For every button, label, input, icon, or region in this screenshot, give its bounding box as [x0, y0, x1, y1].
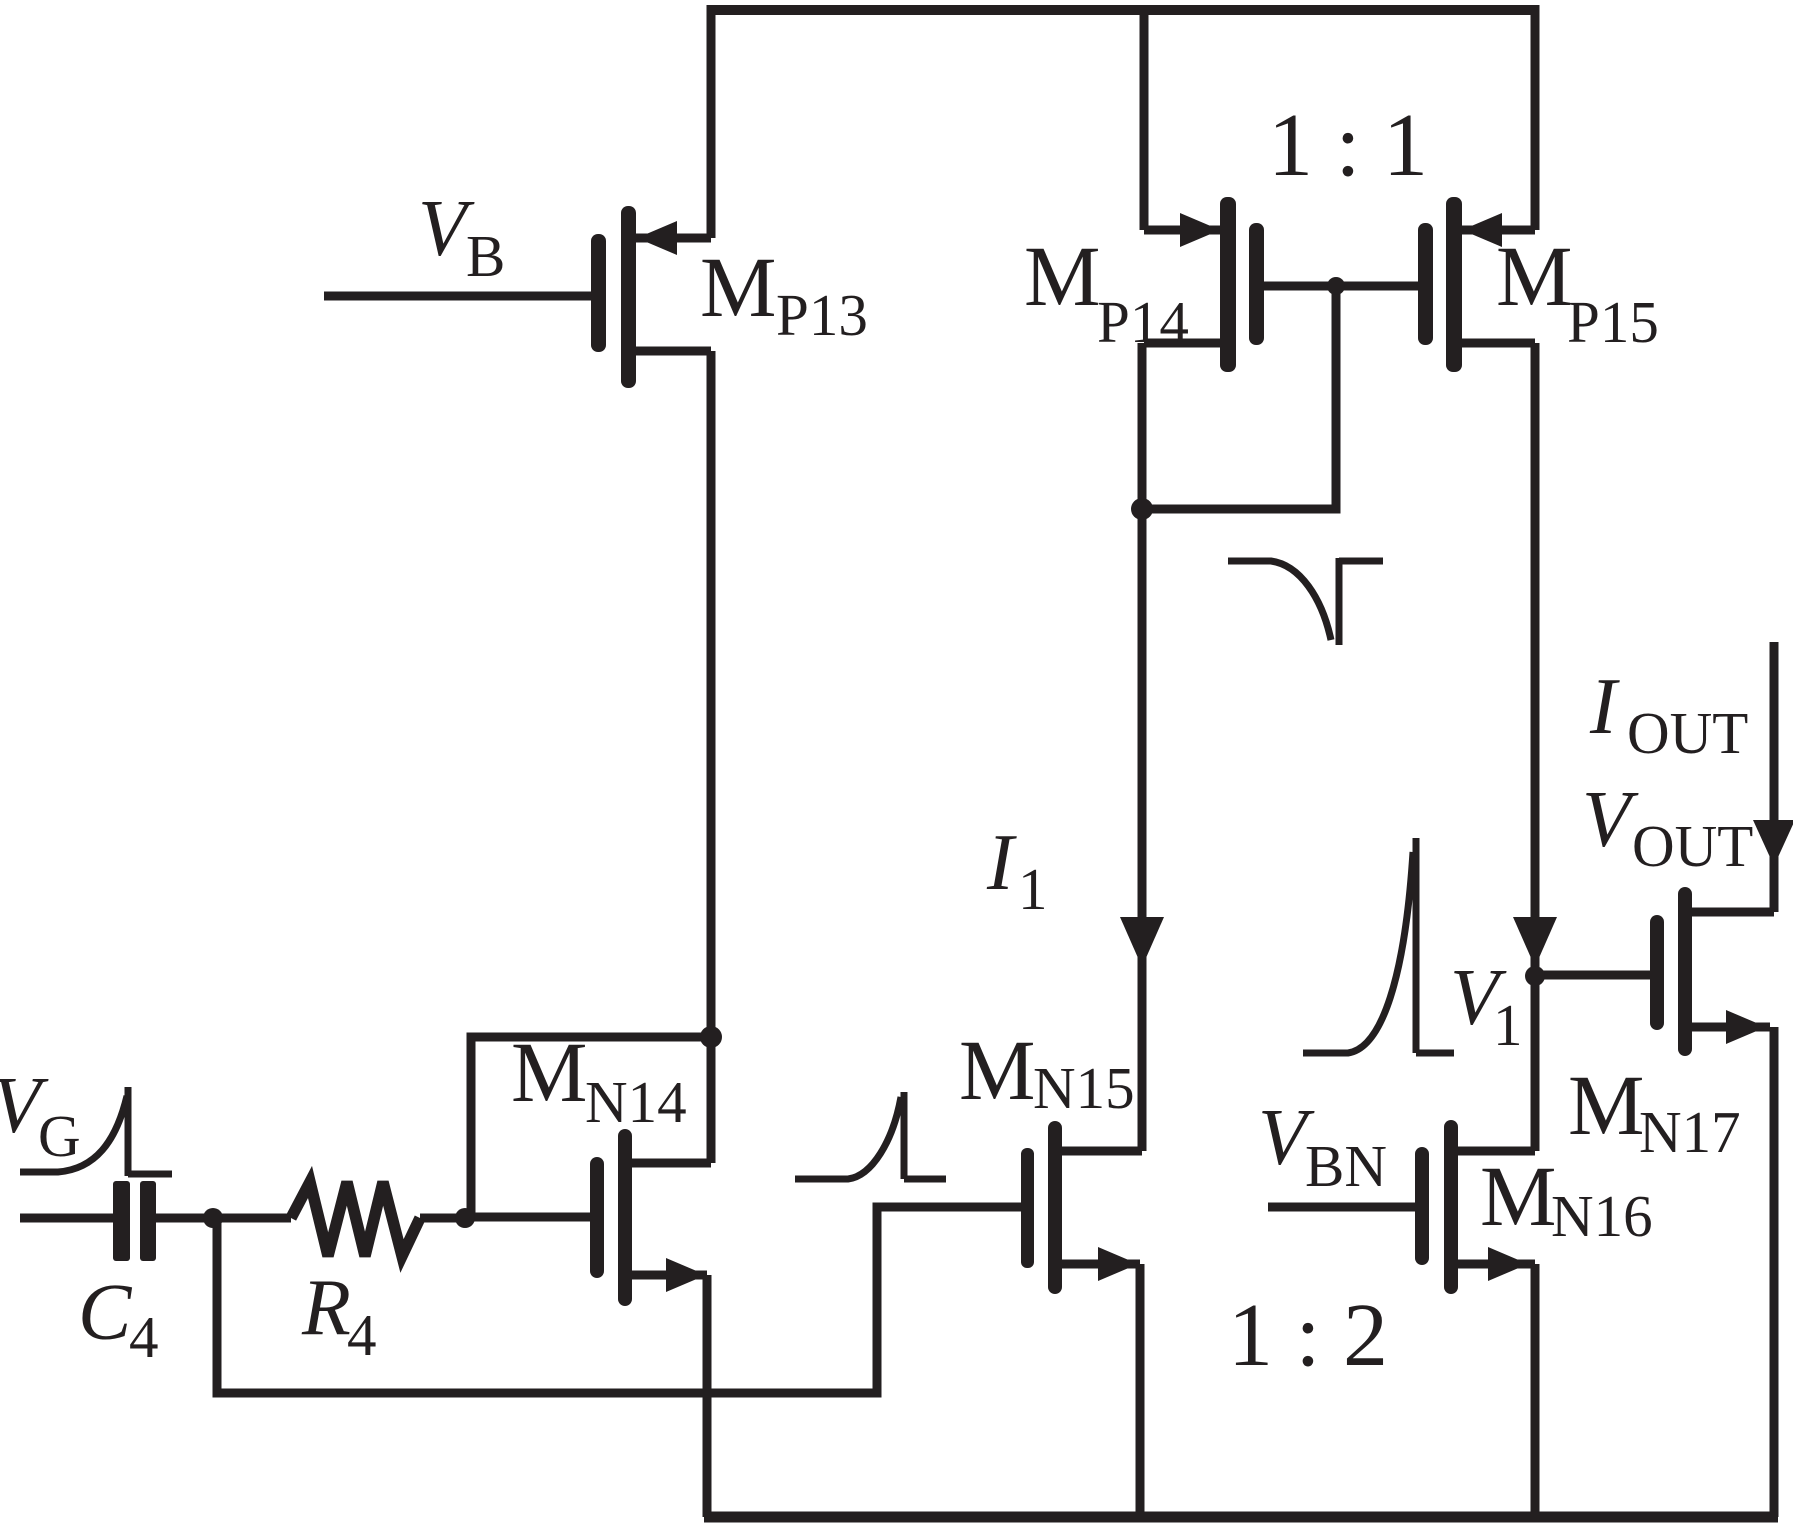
wire MN15 source lead and down to ground [1062, 1264, 1140, 1517]
svg-text:BN: BN [1305, 1133, 1387, 1199]
svg-text:1: 1 [1018, 856, 1048, 922]
transistor MP15 gate bar [1418, 223, 1433, 345]
current arrow I1 [1120, 917, 1164, 967]
wire VG input to C4 [20, 1214, 113, 1223]
svg-text:M: M [700, 239, 776, 335]
wire top supply rail [707, 5, 1539, 15]
transistor MN14 source arrow [666, 1258, 706, 1292]
wire MP13 gate lead from VB [324, 292, 591, 301]
svg-text:C: C [78, 1269, 133, 1357]
wire MP15 source to rail [1531, 5, 1540, 230]
svg-text:M: M [1480, 1148, 1556, 1244]
transistor MP15 source arrow [1462, 213, 1502, 247]
transistor MP13 source arrow [637, 221, 677, 255]
waveform icon at MN15 gate [795, 1097, 901, 1179]
wire R4 right lead [420, 1214, 465, 1223]
wire bottom ground rail [704, 1512, 1778, 1523]
wire MP14 source to rail [1140, 5, 1149, 230]
svg-text:M: M [959, 1022, 1035, 1118]
current arrow into node V1 [1513, 917, 1557, 967]
svg-text:M: M [1024, 228, 1100, 324]
transistor MN15 channel bar [1048, 1121, 1062, 1294]
transistor MN17 source arrow [1726, 1010, 1766, 1044]
svg-text:N17: N17 [1639, 1099, 1741, 1165]
wire MN15 drain lead [1062, 1147, 1142, 1156]
svg-text:P13: P13 [776, 282, 868, 348]
svg-text:P14: P14 [1097, 289, 1189, 355]
node dot MP14 MP15 gate [1327, 277, 1345, 295]
wire MN17 drain lead [1692, 908, 1774, 917]
resistor R4 [291, 1182, 420, 1256]
wire MN14 gate-drain loop [471, 1037, 711, 1217]
wire MP13 source lead [635, 234, 711, 243]
transistor MN15 gate bar [1021, 1148, 1034, 1268]
node dot V1 [1525, 966, 1545, 986]
transistor MP13 gate bar [591, 234, 606, 352]
svg-text:OUT: OUT [1627, 700, 1748, 766]
transistor MP13 channel bar [621, 206, 636, 388]
svg-text:OUT: OUT [1632, 813, 1753, 879]
transistor MP14 channel bar [1220, 197, 1236, 372]
wire MP13 drain down to MN14 drain [707, 351, 716, 1163]
node dot MP14 drain junction [1131, 498, 1153, 520]
wire output IOUT VOUT line [1770, 642, 1779, 912]
svg-text:4: 4 [347, 1302, 377, 1368]
transistor MP14 gate bar [1249, 223, 1264, 345]
transistor MN16 gate bar [1415, 1147, 1429, 1265]
svg-text:I: I [1589, 663, 1620, 751]
svg-text:M: M [1496, 228, 1572, 324]
transistor MN17 gate bar [1650, 915, 1664, 1030]
wire MN16 source lead and down to ground [1458, 1264, 1535, 1517]
svg-text:V: V [1582, 776, 1639, 864]
svg-text:1 : 1: 1 : 1 [1268, 96, 1428, 195]
transistor MN16 source arrow [1488, 1247, 1528, 1281]
transistor MN14 gate bar [590, 1157, 604, 1278]
svg-text:M: M [511, 1024, 587, 1120]
svg-text:P15: P15 [1567, 289, 1659, 355]
wire MN14 drain lead [632, 1159, 711, 1168]
wire MN14 gate lead [461, 1213, 590, 1222]
svg-text:4: 4 [129, 1304, 159, 1370]
current arrow IOUT into output [1753, 820, 1793, 866]
transistor MP15 channel bar [1446, 197, 1462, 372]
wire MP13 source to rail [707, 5, 716, 238]
svg-text:N16: N16 [1551, 1183, 1653, 1249]
svg-text:N14: N14 [585, 1069, 687, 1135]
svg-text:M: M [1568, 1057, 1644, 1153]
wire MP14 source lead [1144, 226, 1220, 235]
waveform icon at MP14 drain node [1228, 561, 1331, 640]
wire MN16 gate lead from VBN [1268, 1203, 1415, 1212]
wire MP13 drain lead [635, 347, 711, 356]
wire MP15 drain lead [1462, 339, 1535, 348]
svg-text:1: 1 [1493, 992, 1523, 1058]
svg-text:I: I [986, 819, 1017, 907]
wire node V1 to MN17 gate [1535, 971, 1650, 980]
wire MP14 drain lead [1144, 339, 1220, 348]
svg-text:G: G [38, 1103, 81, 1169]
node dot after C4 [203, 1208, 223, 1228]
transistor MN17 channel bar [1678, 887, 1692, 1056]
transistor MP14 source arrow [1180, 213, 1220, 247]
transistor MN14 channel bar [618, 1129, 632, 1306]
node dot R4 to MN14 gate [455, 1208, 475, 1228]
wire MP14 drain down to MN15 drain [1138, 343, 1147, 1151]
wire MP15 drain down to node V1 and MN16 drain [1531, 343, 1540, 1151]
capacitor C4 left plate [113, 1181, 130, 1261]
wire gate to drain diode connection [1142, 286, 1336, 509]
waveform icon at node V1 [1303, 852, 1413, 1053]
wire MN16 drain lead [1458, 1147, 1535, 1156]
wire MP14-MP15 gate connector [1264, 282, 1418, 291]
wire C4 node down and across to MN15 gate [217, 1207, 1021, 1393]
wire MN14 source lead and down to ground [632, 1275, 707, 1517]
waveform icon at VG input [20, 1096, 127, 1172]
svg-text:R: R [301, 1264, 351, 1352]
transistor MN15 source arrow [1098, 1247, 1138, 1281]
wire C4 to node [156, 1214, 291, 1223]
svg-text:1 : 2: 1 : 2 [1228, 1286, 1388, 1385]
wire MN17 source lead and down to ground [1692, 1027, 1774, 1517]
svg-text:B: B [466, 223, 505, 289]
transistor MN16 channel bar [1444, 1120, 1458, 1294]
capacitor C4 right plate [140, 1181, 156, 1261]
svg-text:N15: N15 [1033, 1055, 1135, 1121]
node dot MN14 drain junction [700, 1026, 722, 1048]
wire MP15 source lead [1462, 226, 1535, 235]
